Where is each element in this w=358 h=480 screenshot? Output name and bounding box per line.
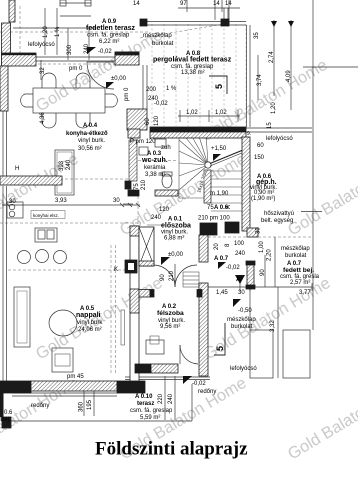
svg-text:75: 75	[134, 183, 140, 190]
svg-text:32: 32	[40, 67, 46, 74]
svg-text:60: 60	[145, 118, 151, 125]
svg-text:A: A	[236, 276, 241, 283]
svg-text:A: A	[226, 205, 232, 209]
svg-text:1 %: 1 %	[166, 86, 177, 92]
svg-text:+1,50: +1,50	[211, 146, 227, 152]
svg-text:30: 30	[113, 198, 120, 204]
svg-text:burkolat: burkolat	[285, 253, 307, 259]
svg-text:±0,00: ±0,00	[168, 252, 184, 258]
svg-text:1,02: 1,02	[215, 110, 227, 116]
svg-text:burkolat: burkolat	[231, 324, 253, 330]
svg-text:redőny: redőny	[198, 389, 216, 395]
svg-text:5: 5	[214, 84, 224, 89]
svg-text:14: 14	[213, 1, 220, 7]
svg-text:210: 210	[169, 270, 175, 281]
svg-text:-0,02: -0,02	[154, 101, 168, 107]
svg-text:240: 240	[168, 393, 174, 404]
svg-text:30: 30	[256, 227, 262, 234]
svg-text:0.6: 0.6	[4, 410, 13, 416]
svg-text:-0,50: -0,50	[238, 308, 252, 314]
svg-text:csm. fá. greslap: csm. fá. greslap	[130, 408, 173, 414]
svg-text:60: 60	[257, 143, 264, 149]
svg-text:P pm 120: P pm 120	[130, 139, 156, 145]
svg-text:A 0.10: A 0.10	[135, 394, 153, 400]
svg-text:konyhai elsz.: konyhai elsz.	[33, 213, 59, 218]
svg-text:240: 240	[235, 251, 246, 257]
svg-text:belt. egység: belt. egység	[261, 218, 293, 224]
svg-text:Földszinti alaprajz: Földszinti alaprajz	[95, 439, 248, 460]
svg-text:5,59 m²: 5,59 m²	[140, 415, 160, 421]
svg-text:90: 90	[160, 274, 166, 281]
svg-text:97: 97	[180, 1, 187, 7]
svg-text:20: 20	[214, 243, 220, 250]
svg-text:210: 210	[141, 179, 147, 190]
svg-text:terasz: terasz	[137, 401, 154, 407]
svg-text:csm. fá. greslap: csm. fá. greslap	[87, 33, 130, 39]
svg-text:redőny: redőny	[31, 403, 49, 409]
svg-text:lefolyócsó: lefolyócsó	[266, 136, 293, 142]
svg-text:393: 393	[59, 160, 65, 171]
svg-text:360: 360	[79, 401, 85, 412]
svg-text:150: 150	[254, 155, 265, 161]
svg-text:1,20: 1,20	[271, 102, 277, 114]
svg-text:9,56 m²: 9,56 m²	[160, 324, 180, 330]
svg-text:5: 5	[215, 346, 225, 351]
svg-text:240: 240	[151, 215, 162, 221]
svg-text:kerámia: kerámia	[144, 165, 166, 171]
svg-text:pm 0: pm 0	[124, 87, 130, 101]
svg-text:240: 240	[84, 43, 90, 54]
svg-text:4,36: 4,36	[40, 112, 46, 124]
svg-text:15: 15	[267, 122, 273, 129]
svg-text:vinyl burk: vinyl burk	[77, 320, 103, 326]
svg-text:nappali: nappali	[76, 312, 101, 319]
svg-text:120: 120	[154, 115, 160, 126]
svg-text:mészkőlap: mészkőlap	[227, 317, 256, 323]
svg-text:lefolyócsó: lefolyócsó	[28, 42, 55, 48]
svg-text:K: K	[114, 267, 118, 273]
svg-text:195: 195	[87, 399, 93, 410]
svg-text:zuh: zuh	[161, 145, 171, 151]
svg-text:75: 75	[207, 205, 214, 211]
svg-text:1,45: 1,45	[216, 290, 228, 296]
svg-text:±0,00: ±0,00	[111, 76, 127, 82]
svg-text:-0,02: -0,02	[98, 49, 112, 55]
svg-text:1,20: 1,20	[43, 26, 49, 38]
svg-text:30: 30	[9, 199, 16, 205]
svg-text:6,88 m²: 6,88 m²	[164, 236, 184, 242]
svg-text:hőszivattyú: hőszivattyú	[264, 211, 294, 217]
svg-text:fedetlen terasz: fedetlen terasz	[86, 25, 136, 32]
svg-text:pm 45: pm 45	[67, 374, 84, 380]
svg-text:120: 120	[159, 207, 170, 213]
svg-text:burkolat: burkolat	[152, 41, 174, 47]
svg-text:3,38 m²: 3,38 m²	[145, 172, 165, 178]
svg-text:9.: 9.	[247, 131, 251, 137]
svg-text:-0,02: -0,02	[226, 265, 240, 271]
svg-text:3,93: 3,93	[55, 198, 67, 204]
svg-text:90: 90	[260, 269, 266, 276]
svg-text:300: 300	[67, 44, 73, 55]
svg-text:A 0.7: A 0.7	[214, 256, 229, 262]
svg-text:(1,90 m²): (1,90 m²)	[251, 196, 275, 202]
svg-text:lefolyócsó: lefolyócsó	[230, 366, 257, 372]
svg-text:fedett bej.: fedett bej.	[283, 267, 314, 274]
svg-text:A 0.4: A 0.4	[83, 123, 98, 129]
svg-text:35: 35	[254, 32, 260, 39]
svg-text:pergolával fedett terasz: pergolával fedett terasz	[153, 57, 232, 64]
svg-text:30: 30	[238, 290, 245, 296]
svg-text:13,38 m²: 13,38 m²	[181, 70, 205, 76]
svg-text:bej.: bej.	[1, 417, 11, 423]
svg-text:1 %: 1 %	[55, 26, 61, 37]
svg-text:félszoba: félszoba	[157, 310, 184, 317]
svg-text:1,00: 1,00	[259, 241, 265, 253]
svg-text:wc-zuh.: wc-zuh.	[141, 157, 168, 164]
svg-text:vinyl burk.: vinyl burk.	[78, 138, 105, 144]
svg-text:30,56 m²: 30,56 m²	[78, 146, 102, 152]
svg-text:4,09: 4,09	[286, 70, 292, 82]
svg-text:6,22 m²: 6,22 m²	[99, 39, 119, 45]
svg-text:3,77: 3,77	[299, 290, 311, 296]
svg-text:100: 100	[234, 241, 245, 247]
svg-text:2,20: 2,20	[267, 249, 273, 261]
svg-text:mészkőlap: mészkőlap	[143, 33, 172, 39]
svg-text:210 pm 100: 210 pm 100	[198, 216, 230, 222]
svg-text:1,02: 1,02	[186, 110, 198, 116]
svg-text:3,32: 3,32	[270, 320, 276, 332]
svg-text:H: H	[15, 166, 19, 172]
svg-text:pm 0: pm 0	[69, 66, 83, 72]
svg-text:220: 220	[158, 393, 164, 404]
svg-text:mészkőlap: mészkőlap	[281, 246, 310, 252]
svg-text:240: 240	[66, 159, 72, 170]
svg-text:2,57 m²: 2,57 m²	[290, 280, 310, 286]
svg-text:m 1,90: m 1,90	[210, 191, 229, 197]
svg-text:14: 14	[225, 1, 232, 7]
svg-text:előszoba: előszoba	[161, 223, 191, 230]
svg-text:konyha-étkező: konyha-étkező	[66, 131, 108, 137]
svg-text:2,74: 2,74	[269, 51, 275, 63]
svg-text:3,74: 3,74	[257, 74, 263, 86]
svg-text:200: 200	[146, 87, 157, 93]
svg-text:14: 14	[133, 1, 140, 7]
svg-text:-0,02: -0,02	[192, 381, 206, 387]
svg-text:24,06 m²: 24,06 m²	[78, 327, 102, 333]
